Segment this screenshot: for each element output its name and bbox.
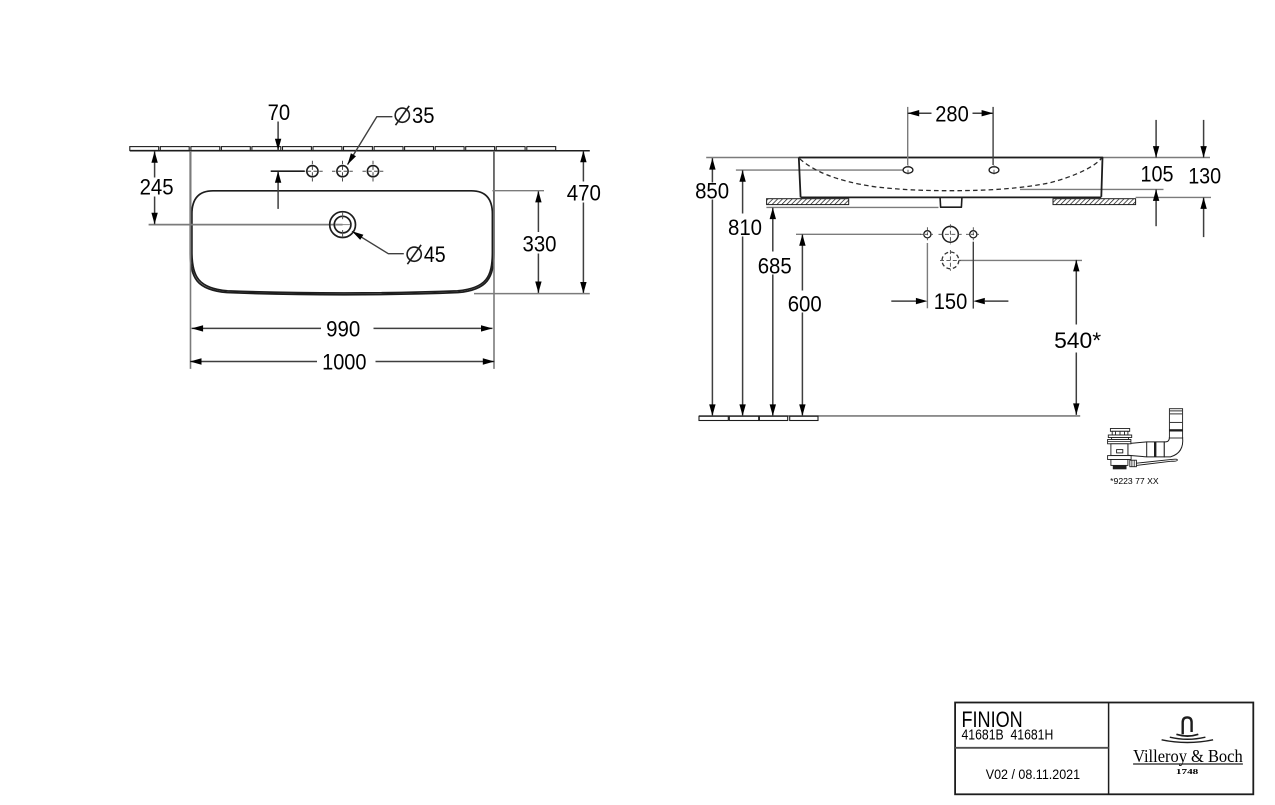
svg-text:45: 45 (424, 242, 446, 267)
svg-text:990: 990 (326, 317, 360, 342)
svg-text:245: 245 (140, 175, 174, 200)
svg-text:1748: 1748 (1176, 767, 1199, 776)
svg-text:470: 470 (567, 180, 601, 205)
svg-text:105: 105 (1141, 161, 1174, 186)
svg-text:*9223 77 XX: *9223 77 XX (1110, 476, 1159, 486)
svg-text:685: 685 (758, 253, 792, 278)
svg-text:70: 70 (268, 100, 291, 125)
svg-text:330: 330 (523, 231, 557, 256)
svg-text:Villeroy & Boch: Villeroy & Boch (1133, 746, 1243, 766)
svg-text:35: 35 (412, 103, 435, 128)
svg-text:1000: 1000 (322, 350, 366, 375)
svg-text:150: 150 (934, 289, 968, 314)
svg-text:130: 130 (1188, 163, 1221, 188)
svg-text:850: 850 (695, 179, 729, 204)
svg-text:280: 280 (935, 101, 969, 126)
svg-text:V02 / 08.11.2021: V02 / 08.11.2021 (986, 766, 1080, 782)
svg-text:810: 810 (728, 215, 762, 240)
svg-text:600: 600 (788, 292, 822, 317)
svg-text:41681B 41681H: 41681B 41681H (962, 728, 1054, 744)
svg-text:540*: 540* (1054, 328, 1101, 353)
